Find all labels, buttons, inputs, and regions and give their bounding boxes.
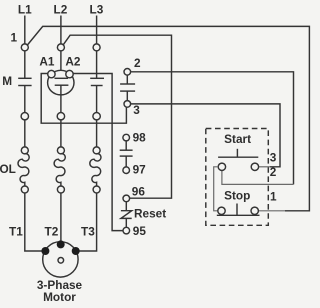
svg-text:3: 3 [133, 103, 140, 117]
aux contact terminal 2 [124, 69, 131, 76]
svg-text:2: 2 [270, 165, 277, 179]
wire [96, 16, 98, 44]
terminal row [21, 113, 28, 120]
svg-text:M: M [2, 74, 12, 88]
wire box to 95 [112, 123, 123, 230]
wire L2 into coil [60, 51, 62, 78]
wire L2 to OL 96 [63, 35, 171, 198]
svg-text:OL: OL [0, 162, 16, 176]
wire L1 to control [27, 26, 309, 210]
OL trip terminal 96 [123, 195, 130, 202]
wire [24, 16, 26, 44]
terminal A1 [48, 70, 55, 77]
terminal [93, 44, 100, 51]
coil plates [55, 77, 69, 79]
svg-text:98: 98 [133, 131, 147, 145]
wire T2 to motor [60, 193, 62, 242]
trip element Z [121, 211, 132, 219]
wire T3 to motor [78, 193, 97, 251]
wire node2 to start [131, 72, 294, 185]
aux contact 2-3 [126, 75, 128, 84]
wire [259, 210, 286, 212]
wire [60, 16, 62, 44]
svg-text:A2: A2 [65, 55, 81, 69]
svg-text:T2: T2 [45, 225, 59, 239]
svg-text:Motor: Motor [43, 290, 76, 304]
svg-text:1: 1 [270, 190, 277, 204]
contact M L3 [96, 51, 98, 78]
svg-text:96: 96 [132, 184, 146, 198]
svg-text:L3: L3 [90, 3, 104, 17]
pushbutton station dashed box [206, 129, 268, 226]
OL heater L1 [24, 120, 26, 147]
svg-text:97: 97 [133, 162, 147, 176]
enclosure box [41, 74, 112, 124]
contact M L1 [24, 51, 26, 78]
svg-text:1: 1 [11, 31, 18, 45]
wire node3 to start [131, 104, 280, 167]
svg-text:Start: Start [224, 132, 251, 146]
svg-text:T3: T3 [81, 225, 95, 239]
svg-text:A1: A1 [39, 55, 55, 69]
terminal 1 [21, 44, 28, 51]
svg-text:Stop: Stop [224, 188, 250, 202]
svg-text:L2: L2 [54, 3, 68, 17]
svg-text:Reset: Reset [134, 206, 166, 220]
terminal [57, 44, 64, 51]
aux contact terminal 3 [124, 101, 131, 108]
motor [43, 242, 78, 277]
svg-text:2: 2 [134, 56, 141, 70]
wire T1 to motor [25, 193, 43, 251]
wire [259, 166, 270, 168]
svg-text:95: 95 [133, 224, 147, 238]
OL trip terminal 95 [123, 227, 130, 234]
OL aux terminal 97 [123, 167, 130, 174]
svg-text:3: 3 [270, 151, 277, 165]
wire box to node 3 [112, 107, 126, 123]
svg-text:T1: T1 [9, 225, 23, 239]
hold wire [214, 167, 219, 211]
terminal A2 [66, 70, 73, 77]
svg-text:L1: L1 [18, 3, 32, 17]
OL heater L3 [96, 120, 98, 147]
OL aux contact [125, 141, 127, 150]
wire [222, 171, 294, 185]
coil M [48, 70, 74, 95]
OL aux terminal 98 [123, 134, 130, 141]
OL heater L2 [60, 120, 62, 147]
